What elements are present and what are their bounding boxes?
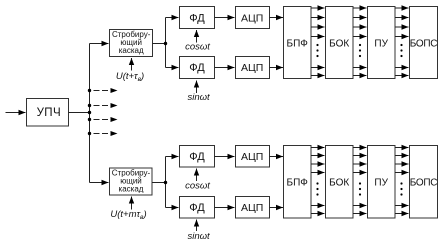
svg-text:БОПС: БОПС (410, 177, 438, 188)
svg-text:cosωt: cosωt (185, 41, 210, 52)
svg-text:ФД: ФД (189, 13, 205, 25)
svg-text:sinωt: sinωt (188, 92, 211, 103)
svg-text:УПЧ: УПЧ (37, 107, 61, 119)
svg-text:ПУ: ПУ (374, 38, 388, 49)
svg-text:sinωt: sinωt (188, 231, 211, 242)
svg-text:U(t+τв): U(t+τв) (116, 71, 144, 83)
svg-text:БОК: БОК (329, 38, 349, 49)
svg-text:ПУ: ПУ (374, 177, 388, 188)
svg-text:АЦП: АЦП (241, 151, 263, 163)
svg-text:БОПС: БОПС (410, 38, 438, 49)
svg-text:АЦП: АЦП (241, 12, 263, 24)
svg-text:БПФ: БПФ (287, 177, 309, 188)
svg-text:cosωt: cosωt (185, 180, 210, 191)
svg-text:каскад: каскад (119, 185, 144, 194)
svg-text:ФД: ФД (189, 151, 205, 163)
svg-text:ФД: ФД (189, 62, 205, 74)
svg-text:каскад: каскад (119, 46, 144, 55)
svg-text:АЦП: АЦП (241, 62, 263, 74)
svg-text:БПФ: БПФ (287, 38, 309, 49)
svg-text:ФД: ФД (189, 202, 205, 214)
svg-text:БОК: БОК (329, 177, 349, 188)
svg-text:U(t+mτв): U(t+mτв) (110, 209, 146, 221)
svg-text:АЦП: АЦП (241, 202, 263, 214)
